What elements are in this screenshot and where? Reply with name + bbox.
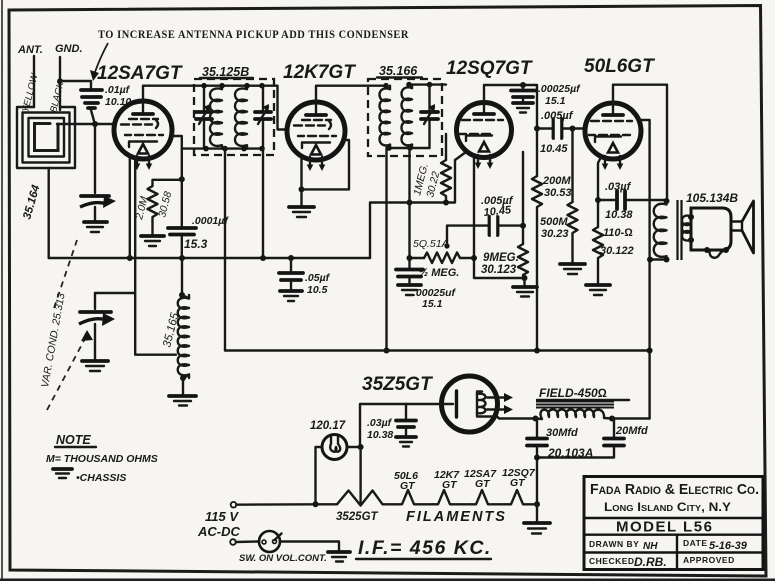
svg-text:30.53: 30.53 [544, 187, 572, 199]
svg-text:.0001µf: .0001µf [192, 215, 229, 227]
trimmer capacitor (35.125B primary) [196, 86, 212, 149]
wire switch to chassis [280, 542, 339, 552]
junction cap return [534, 455, 540, 461]
svg-text:½ MEG.: ½ MEG. [419, 267, 459, 279]
terminal 115V hot [231, 502, 237, 508]
svg-text:ANT.: ANT. [17, 44, 43, 56]
wire lamp left lead [316, 447, 323, 504]
svg-text:.03µf: .03µf [605, 181, 632, 193]
coil 35.166 secondary winding [402, 85, 413, 149]
svg-text:.00025µf: .00025µf [538, 83, 581, 95]
ground (B-) [524, 504, 550, 533]
B+ rail [225, 349, 649, 351]
svg-text:GT: GT [510, 477, 526, 489]
capacitor .00025uf 15.1 (AVC filter) [396, 258, 457, 310]
junction screen/B+ rail [647, 348, 653, 354]
heater hump 12K7 [433, 490, 471, 504]
resistor 500M 30.23 [540, 129, 578, 264]
wire 35.166 secondary return down to volume control [408, 148, 410, 258]
junction cathode node [595, 197, 601, 203]
wire loop return to AVC rail [48, 168, 50, 258]
svg-text:10.38: 10.38 [367, 429, 393, 441]
resistor 9MEG 30.123 [481, 226, 528, 278]
tube 12K7GT [283, 62, 356, 171]
capacitor .05uf 10.5 [279, 258, 331, 301]
capacitor .03uf 10.38 (hash filter) [367, 404, 416, 447]
svg-text:GT: GT [475, 478, 491, 490]
capacitor 20Mfd [537, 419, 648, 458]
svg-text:NOTE: NOTE [56, 433, 91, 447]
junction AVC tie [407, 200, 413, 206]
wire x182 rail to osc coil [181, 258, 183, 295]
wire 12SQ7 right cathode to 9MEG bottom [474, 156, 525, 278]
wire 50L6 screen to B+ [640, 120, 650, 419]
ground (osc coil) [169, 378, 196, 406]
coil 35.125B primary winding [210, 86, 222, 149]
svg-text:10.38: 10.38 [605, 209, 633, 221]
svg-text:5Q.51A: 5Q.51A [413, 238, 449, 250]
ground (9MEG) [513, 278, 537, 297]
variable capacitor (oscillator tuning gang) [79, 293, 115, 360]
svg-text:3525GT: 3525GT [336, 511, 379, 523]
scan edge left [1, 0, 3, 581]
svg-text:.05µf: .05µf [305, 272, 331, 284]
heater hump 50L6 [397, 490, 433, 504]
svg-text:D.RB.: D.RB. [634, 555, 667, 569]
svg-text:GT: GT [442, 479, 458, 491]
ground (50L6 cathode) [586, 285, 610, 295]
IF transformer 35.166 dashed box [368, 64, 442, 156]
svg-text:15.1: 15.1 [545, 95, 566, 107]
junction output transformer top [664, 198, 670, 204]
trimmer capacitor (35.125B secondary) [255, 86, 271, 149]
wire osc cap top to osc grid line [95, 292, 134, 294]
svg-text:30.122: 30.122 [600, 245, 634, 257]
svg-text:500M: 500M [540, 216, 568, 228]
svg-text:30Mfd: 30Mfd [546, 427, 578, 439]
svg-text:MODEL L56: MODEL L56 [616, 519, 713, 536]
speaker 105.134B [682, 191, 754, 258]
svg-text:30.123: 30.123 [481, 264, 517, 276]
capacitor .00025uf 15.1 (plate bypass) [511, 83, 581, 113]
wire 35.125B secondary return to AVC rail [262, 149, 264, 258]
svg-text:GT: GT [400, 480, 416, 492]
wire 12SA7 cathode to AVC rail [129, 155, 131, 258]
svg-text:50L6GT: 50L6GT [584, 56, 655, 77]
wire 12SA7 osc grid down to coil tap [135, 158, 176, 355]
AVC rail [49, 257, 370, 259]
junction primary return on B+ rail [384, 348, 390, 354]
svg-text:NH: NH [643, 541, 658, 552]
volume control 1/2 MEG (50.51A) [410, 238, 475, 279]
svg-text:200M: 200M [542, 175, 571, 187]
heater hump 12SQ7 [506, 490, 537, 504]
coil 35.166 primary winding [380, 86, 391, 149]
svg-text:20Mfd: 20Mfd [615, 425, 648, 437]
svg-text:FILAMENTS: FILAMENTS [406, 509, 507, 525]
35.125B top rail [204, 84, 263, 86]
coil 35.165 oscillator [161, 295, 189, 378]
wire primary bottom to screen line [650, 258, 667, 260]
wire gnd lead to antenna condenser [60, 81, 91, 88]
35.125B bottom rail [182, 147, 263, 149]
AVC jog wire [370, 160, 455, 258]
junction 500M top [570, 126, 576, 132]
junction detector load node [520, 223, 526, 229]
wire 35.125B secondary top to 12K7 grid [262, 86, 287, 130]
wire 12K7 cathode down [300, 157, 302, 189]
wire grid line from loop to 12SA7 [57, 123, 114, 125]
junction 12SA7 cathode on rail [127, 255, 133, 261]
loop antenna 35.164 [17, 107, 75, 221]
wire 35Z5 plate line to pilot circuit [360, 404, 442, 447]
transformer core [678, 200, 682, 260]
resistor 1MEG 30.22 [411, 134, 451, 203]
junction grid-leak node [179, 176, 185, 182]
junction lamp tap [313, 501, 319, 507]
ground (osc tuning) [82, 361, 108, 371]
junction .05uf on rail [288, 255, 294, 261]
ground (antenna tuning) [84, 222, 107, 232]
svg-text:.01µf: .01µf [105, 84, 131, 96]
capacitor .005uf 10.45 (audio coupling) [540, 110, 574, 155]
svg-text:.03µf: .03µf [367, 417, 393, 429]
junction 1MEG bottom [443, 200, 449, 206]
resistor 200M 30.53 [532, 175, 572, 351]
svg-text:M= THOUSAND OHMS: M= THOUSAND OHMS [46, 453, 158, 465]
svg-text:12SQ7GT: 12SQ7GT [446, 58, 533, 79]
resistor 110 ohm 30.122 [593, 227, 634, 284]
svg-text:110-Ω: 110-Ω [603, 227, 633, 239]
junction x182 on rail [179, 255, 185, 261]
wire ground lead [59, 57, 61, 110]
output transformer primary [654, 201, 667, 260]
capacitor .0001uf 15.3 [168, 215, 229, 258]
title block [584, 477, 763, 570]
wire volume tap to .005 cap [447, 226, 523, 246]
wire 12SA7 anode-grid lead right side [172, 136, 182, 149]
svg-text:115 V: 115 V [205, 509, 239, 524]
svg-text:35Z5GT: 35Z5GT [362, 374, 433, 395]
svg-text:9MEG.: 9MEG. [483, 252, 519, 264]
svg-text:15.1: 15.1 [422, 298, 443, 310]
junction bypass cap [520, 82, 526, 88]
tube 50L6GT [584, 56, 655, 170]
wire 35.166 primary return to B+ rail [385, 148, 387, 351]
svg-text:CHECKED: CHECKED [589, 556, 635, 566]
wire AC line to filament bus [236, 503, 315, 506]
scan edge bottom [0, 579, 775, 581]
ground (12K7 cathode) [289, 189, 314, 217]
ground (AC return) [328, 552, 350, 562]
35.166 secondary top rail [409, 83, 446, 85]
svg-text:.005µf: .005µf [541, 110, 574, 122]
junction audio coupling tap [534, 126, 540, 132]
svg-text:105.134B: 105.134B [686, 191, 738, 205]
svg-text:12K7GT: 12K7GT [283, 62, 356, 83]
heater hump 12SA7 [471, 490, 506, 504]
wire antenna lead [33, 56, 35, 107]
svg-text:12SA7GT: 12SA7GT [97, 63, 183, 84]
pilot lamp 120.17 [310, 420, 347, 460]
dashed pointer to tuning gang [47, 333, 88, 410]
wire x181.8 vertical [181, 149, 183, 226]
junction filter output [609, 416, 615, 422]
wire diode plate drop [522, 152, 524, 226]
node grid junction [92, 121, 98, 127]
wire 12SQ7 plate lead [484, 85, 537, 176]
svg-text:SW. ON VOL.CONT.: SW. ON VOL.CONT. [239, 553, 327, 564]
ground (500M) [560, 264, 585, 274]
filament bus with 35Z5 heater section [316, 491, 398, 506]
svg-text:DATE: DATE [683, 538, 708, 548]
capacitor .01uf 10.10 antenna condenser [81, 84, 131, 124]
arrow from note to condenser [95, 43, 108, 72]
variable capacitor (antenna tuning gang) [80, 124, 116, 221]
35.166 bottom rail [387, 147, 430, 149]
svg-text:FIELD-450Ω: FIELD-450Ω [539, 386, 607, 400]
IF transformer 35.125B dashed box [194, 65, 274, 155]
resistor 2.0M 30.58 [133, 180, 182, 222]
junction 9MEG bottom [522, 275, 528, 281]
svg-text:I.F.= 456 KC.: I.F.= 456 KC. [358, 537, 492, 559]
svg-text:TO INCREASE ANTENNA PICKUP ADD: TO INCREASE ANTENNA PICKUP ADD THIS COND… [98, 29, 409, 41]
junction 35.125B secondary return on rail [260, 255, 266, 261]
wire field coil to B+ riser [612, 417, 650, 419]
wire 35Z5 cathode to filter [497, 417, 536, 419]
trimmer capacitor (35.166 secondary) [421, 85, 438, 148]
svg-text:Long Island City, N.Y: Long Island City, N.Y [604, 502, 731, 514]
wire lamp right lead [347, 446, 361, 448]
capacitor 30Mfd [527, 419, 578, 505]
junction osc coil top [179, 292, 185, 298]
svg-text:Fada Radio & Electric Co.: Fada Radio & Electric Co. [590, 481, 759, 498]
wire 50L6 plate lead to output transformer [613, 85, 667, 201]
svg-text:10.45: 10.45 [540, 143, 568, 155]
terminal 115V return [230, 539, 236, 545]
junctions 35.125B [201, 83, 207, 89]
switch SW on vol control [236, 531, 327, 564]
svg-text:30.23: 30.23 [541, 228, 569, 240]
svg-text:•CHASSIS: •CHASSIS [76, 472, 126, 484]
svg-text:5-16-39: 5-16-39 [709, 540, 748, 552]
wire 50L6 cathode down [598, 157, 601, 227]
NOTE block [46, 433, 158, 484]
wire 35.125B primary return to B+ rail [224, 149, 226, 351]
junction osc coil bottom [180, 375, 186, 381]
dashed pointer to antenna section [54, 240, 77, 308]
wire 12K7 plate to 35.166 primary [316, 86, 386, 102]
field coil FIELD-450 [536, 386, 630, 419]
capacitor .005uf 10.45 (detector coupling) [481, 195, 514, 236]
svg-text:120.17: 120.17 [310, 420, 346, 432]
junction on ground lead [57, 78, 63, 84]
tube 12SQ7GT [446, 58, 533, 169]
capacitor .03uf 10.38 (plate-cathode) [598, 181, 666, 221]
ground (2.0M) [141, 222, 164, 246]
junction 12K7 cathode node [299, 186, 305, 192]
svg-text:DRAWN BY: DRAWN BY [589, 539, 639, 549]
junction volume control left [407, 255, 413, 261]
svg-text:APPROVED: APPROVED [683, 555, 735, 565]
svg-text:35.166: 35.166 [379, 64, 418, 78]
wire coupling line to 50L6 grid [537, 127, 585, 129]
tube 12SA7GT [97, 63, 183, 170]
svg-text:15.3: 15.3 [184, 237, 208, 251]
svg-text:AC-DC: AC-DC [197, 524, 240, 539]
junction pot right on cathode wire [471, 255, 477, 261]
junction 35.166 primary top [383, 83, 389, 89]
tube 35Z5GT rectifier [362, 374, 513, 432]
svg-text:GND.: GND. [55, 43, 83, 55]
wire 12K7 screen to cathode node [302, 140, 350, 189]
junction filter input [533, 416, 539, 422]
junction filament bus end [534, 501, 540, 507]
wire 12SA7 plate to IF primary [143, 86, 204, 101]
coil 35.125B secondary winding [235, 86, 247, 149]
junction 200M on B+ rail [534, 348, 540, 354]
wire 12SQ7 cathode lead [455, 152, 466, 160]
svg-text:10.5: 10.5 [307, 284, 328, 296]
